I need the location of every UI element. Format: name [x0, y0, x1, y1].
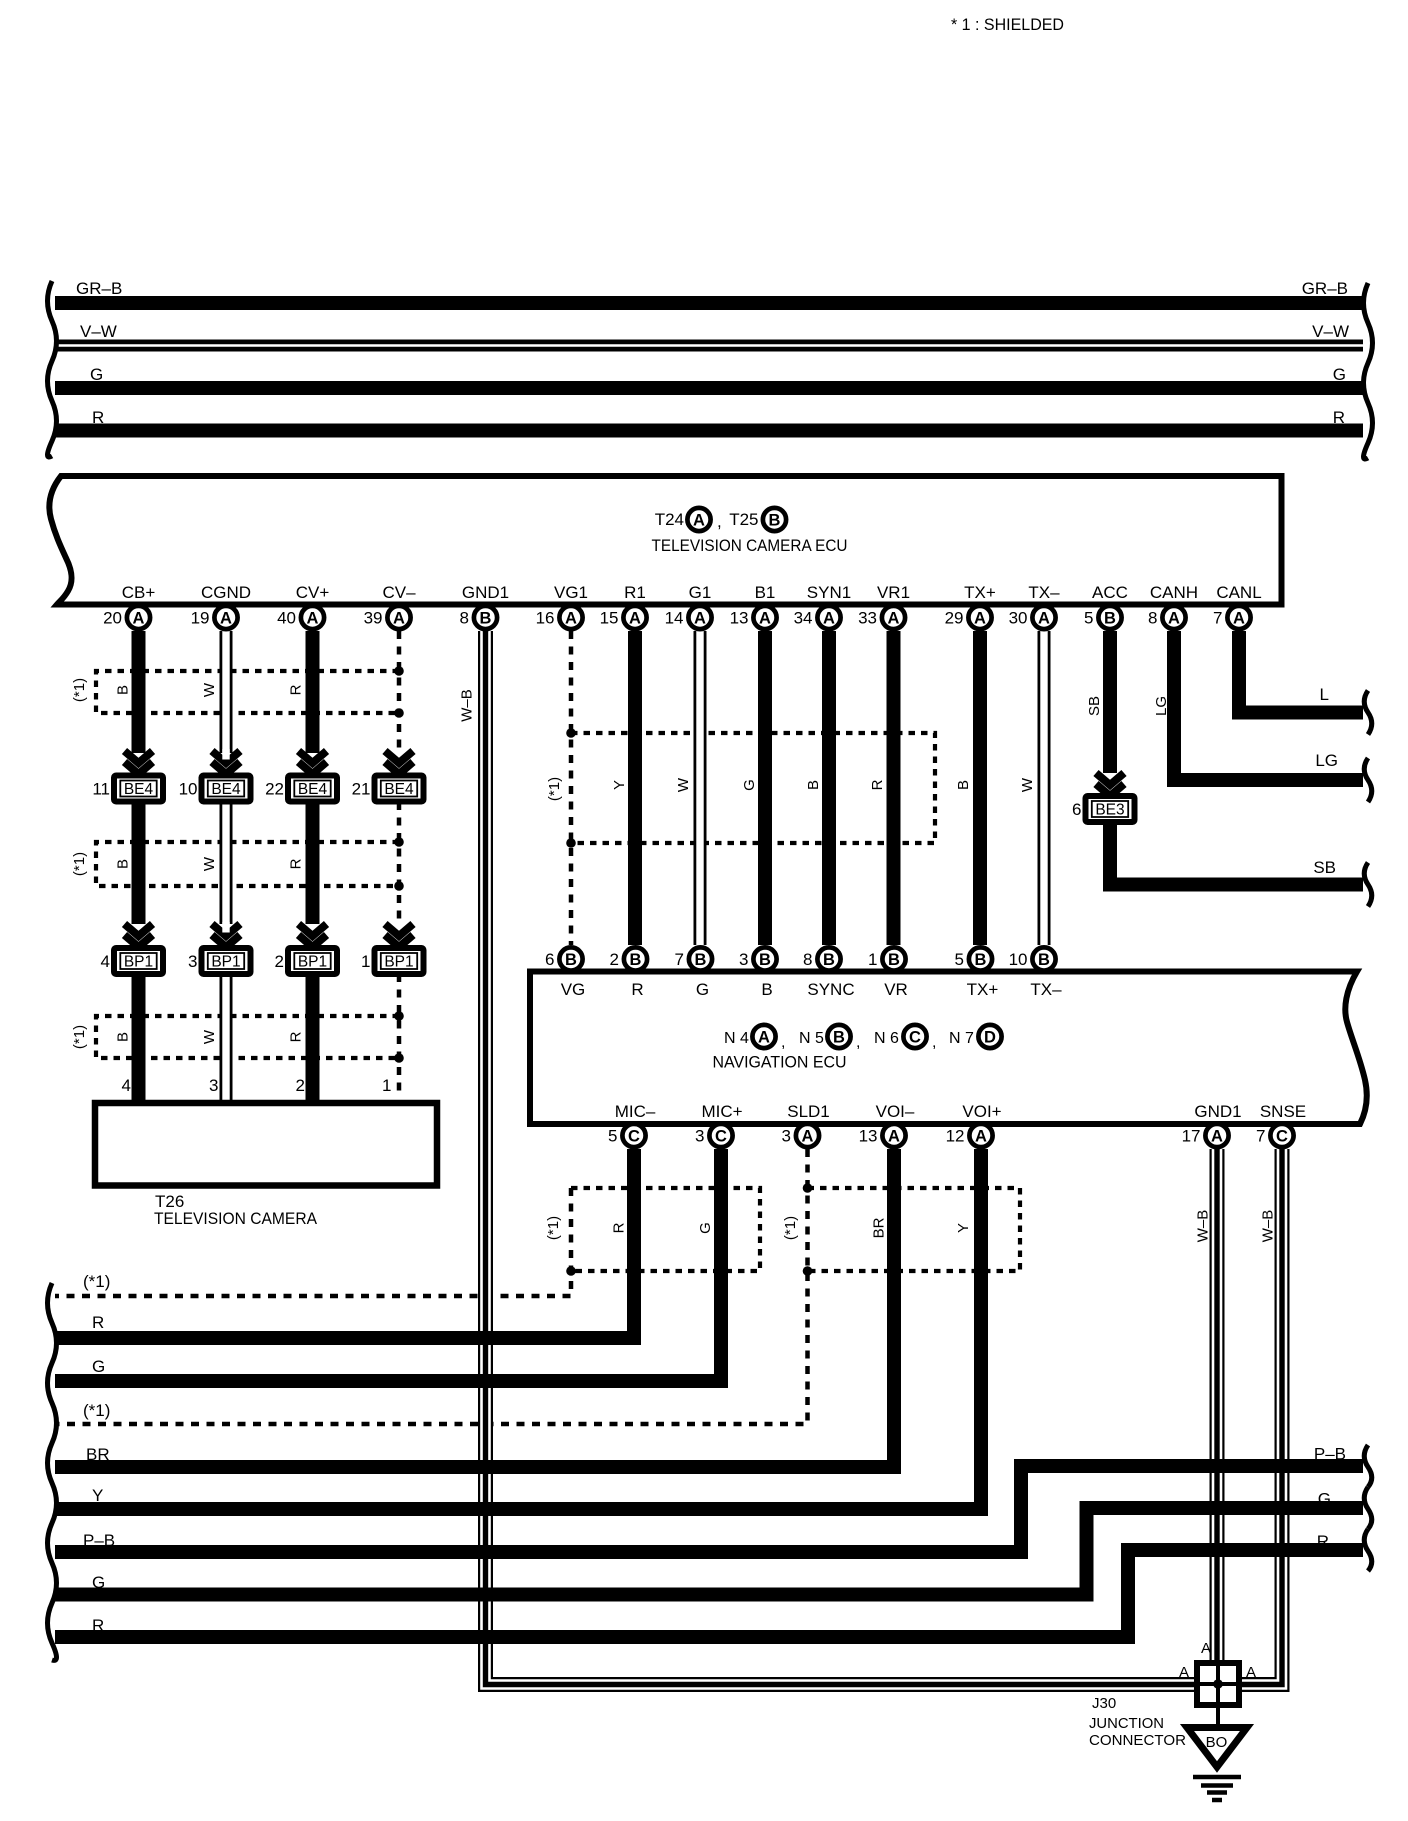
svg-text:LG: LG	[1315, 751, 1338, 770]
svg-text:MIC–: MIC–	[615, 1102, 656, 1121]
svg-text:VG1: VG1	[554, 583, 588, 602]
svg-text:4: 4	[122, 1076, 131, 1095]
svg-text:G1: G1	[689, 583, 712, 602]
svg-text:13: 13	[730, 609, 749, 628]
svg-text:8: 8	[1148, 609, 1157, 628]
svg-text:G: G	[92, 1573, 105, 1592]
svg-text:W: W	[201, 1029, 218, 1044]
svg-text:,: ,	[932, 1034, 936, 1051]
svg-text:CGND: CGND	[201, 583, 251, 602]
svg-text:LG: LG	[1153, 696, 1170, 716]
svg-text:B: B	[630, 951, 642, 969]
svg-text:,: ,	[717, 512, 722, 531]
svg-text:(*1): (*1)	[782, 1216, 799, 1240]
svg-text:R: R	[288, 1031, 305, 1042]
svg-text:W–B: W–B	[1260, 1210, 1277, 1243]
svg-text:A: A	[1038, 610, 1050, 628]
svg-text:A: A	[393, 610, 405, 628]
svg-text:T25: T25	[729, 510, 758, 529]
svg-text:BE4: BE4	[298, 781, 328, 798]
svg-text:SB: SB	[1086, 696, 1103, 716]
svg-text:C: C	[909, 1029, 921, 1047]
svg-text:CONNECTOR: CONNECTOR	[1089, 1732, 1186, 1749]
svg-text:D: D	[984, 1029, 996, 1047]
svg-text:3: 3	[209, 1076, 218, 1095]
svg-text:R: R	[1333, 408, 1345, 427]
svg-text:A: A	[220, 610, 232, 628]
svg-text:G: G	[696, 980, 709, 999]
svg-text:C: C	[1276, 1128, 1288, 1146]
svg-text:G: G	[1333, 365, 1346, 384]
svg-text:R1: R1	[624, 583, 646, 602]
svg-text:BP1: BP1	[124, 954, 153, 971]
svg-text:TX+: TX+	[964, 583, 996, 602]
svg-text:CV–: CV–	[382, 583, 416, 602]
svg-text:B: B	[769, 512, 781, 530]
svg-text:SB: SB	[1313, 858, 1336, 877]
svg-text:T24: T24	[655, 510, 684, 529]
svg-text:CANH: CANH	[1150, 583, 1198, 602]
svg-text:BO: BO	[1206, 1734, 1228, 1751]
svg-text:13: 13	[859, 1127, 878, 1146]
svg-text:W–B: W–B	[1195, 1210, 1212, 1243]
svg-text:L: L	[1320, 685, 1329, 704]
svg-text:10: 10	[1009, 950, 1028, 969]
svg-text:20: 20	[103, 609, 122, 628]
svg-text:12: 12	[946, 1127, 965, 1146]
svg-text:B: B	[805, 780, 822, 790]
svg-text:6: 6	[1072, 800, 1081, 819]
svg-text:1: 1	[382, 1076, 391, 1095]
svg-text:33: 33	[858, 609, 877, 628]
svg-text:7: 7	[675, 950, 684, 969]
svg-text:29: 29	[945, 609, 964, 628]
svg-text:B1: B1	[755, 583, 776, 602]
svg-text:A: A	[1246, 1664, 1256, 1681]
svg-text:N 5: N 5	[799, 1030, 824, 1047]
svg-text:CB+: CB+	[122, 583, 156, 602]
svg-text:R: R	[288, 684, 305, 695]
svg-text:TX–: TX–	[1030, 980, 1062, 999]
svg-text:TX+: TX+	[967, 980, 999, 999]
svg-text:C: C	[628, 1128, 640, 1146]
svg-text:TELEVISION CAMERA ECU: TELEVISION CAMERA ECU	[652, 536, 848, 555]
svg-text:P–B: P–B	[1314, 1445, 1346, 1464]
svg-text:VOI–: VOI–	[876, 1102, 915, 1121]
svg-text:A: A	[307, 610, 319, 628]
svg-text:B: B	[1038, 951, 1050, 969]
svg-text:B: B	[480, 610, 492, 628]
svg-text:CANL: CANL	[1216, 583, 1261, 602]
svg-text:SNSE: SNSE	[1260, 1102, 1306, 1121]
svg-text:,: ,	[856, 1034, 860, 1051]
svg-text:(*1): (*1)	[545, 1216, 562, 1240]
svg-text:Y: Y	[611, 780, 628, 790]
svg-text:(*1): (*1)	[71, 1025, 88, 1049]
svg-text:W: W	[201, 856, 218, 871]
svg-text:BE4: BE4	[211, 781, 241, 798]
svg-text:(*1): (*1)	[71, 852, 88, 876]
svg-text:22: 22	[265, 780, 284, 799]
svg-text:30: 30	[1009, 609, 1028, 628]
svg-text:R: R	[92, 408, 104, 427]
svg-text:39: 39	[364, 609, 383, 628]
svg-text:VG: VG	[561, 980, 586, 999]
svg-text:BP1: BP1	[384, 954, 413, 971]
svg-text:21: 21	[352, 780, 371, 799]
svg-text:B: B	[761, 980, 772, 999]
svg-text:GR–B: GR–B	[76, 279, 122, 298]
svg-text:A: A	[823, 610, 835, 628]
svg-text:CV+: CV+	[296, 583, 330, 602]
svg-text:C: C	[715, 1128, 727, 1146]
svg-text:Y: Y	[955, 1223, 972, 1233]
svg-text:G: G	[741, 779, 758, 791]
svg-text:3: 3	[188, 952, 197, 971]
svg-text:A: A	[758, 1029, 770, 1047]
svg-text:G: G	[92, 1357, 105, 1376]
svg-text:A: A	[694, 610, 706, 628]
svg-text:(*1): (*1)	[83, 1272, 110, 1291]
svg-text:BP1: BP1	[298, 954, 327, 971]
svg-text:TX–: TX–	[1028, 583, 1060, 602]
svg-text:Y: Y	[92, 1486, 103, 1505]
svg-text:A: A	[759, 610, 771, 628]
svg-text:(*1): (*1)	[546, 777, 563, 801]
svg-text:2: 2	[275, 952, 284, 971]
svg-text:VR: VR	[884, 980, 908, 999]
svg-text:N 4: N 4	[724, 1030, 749, 1047]
svg-text:34: 34	[794, 609, 813, 628]
svg-text:G: G	[697, 1222, 714, 1234]
svg-text:40: 40	[277, 609, 296, 628]
svg-text:BP1: BP1	[211, 954, 240, 971]
svg-text:19: 19	[191, 609, 210, 628]
svg-text:BE4: BE4	[384, 781, 414, 798]
svg-text:10: 10	[179, 780, 198, 799]
svg-text:16: 16	[536, 609, 555, 628]
svg-text:5: 5	[955, 950, 964, 969]
svg-text:B: B	[115, 859, 132, 869]
svg-text:A: A	[888, 610, 900, 628]
svg-text:B: B	[565, 951, 577, 969]
svg-text:A: A	[888, 1128, 900, 1146]
svg-text:W: W	[1019, 777, 1036, 792]
svg-text:A: A	[802, 1128, 814, 1146]
svg-text:B: B	[888, 951, 900, 969]
svg-text:R: R	[288, 858, 305, 869]
svg-text:R: R	[92, 1616, 104, 1635]
svg-text:14: 14	[665, 609, 684, 628]
svg-text:SYN1: SYN1	[807, 583, 851, 602]
svg-text:VOI+: VOI+	[962, 1102, 1001, 1121]
svg-text:1: 1	[361, 952, 370, 971]
svg-text:R: R	[611, 1222, 628, 1233]
svg-text:B: B	[1104, 610, 1116, 628]
svg-text:VR1: VR1	[877, 583, 910, 602]
svg-text:2: 2	[610, 950, 619, 969]
svg-text:SLD1: SLD1	[787, 1102, 830, 1121]
svg-text:GND1: GND1	[462, 583, 509, 602]
svg-text:A: A	[565, 610, 577, 628]
svg-text:P–B: P–B	[83, 1531, 115, 1550]
svg-text:N 7: N 7	[949, 1030, 974, 1047]
svg-text:N 6: N 6	[874, 1030, 899, 1047]
svg-text:BE4: BE4	[124, 781, 154, 798]
svg-text:15: 15	[600, 609, 619, 628]
svg-text:B: B	[115, 1032, 132, 1042]
svg-text:A: A	[693, 512, 705, 530]
svg-text:GR–B: GR–B	[1302, 279, 1348, 298]
svg-text:A: A	[1201, 1640, 1211, 1657]
svg-text:1: 1	[868, 950, 877, 969]
svg-text:11: 11	[92, 780, 110, 799]
svg-text:G: G	[1318, 1490, 1331, 1509]
svg-text:* 1 : SHIELDED: * 1 : SHIELDED	[951, 15, 1064, 34]
svg-text:BR: BR	[871, 1217, 888, 1238]
svg-text:A: A	[974, 610, 986, 628]
svg-text:5: 5	[608, 1127, 617, 1146]
svg-text:R: R	[631, 980, 643, 999]
svg-text:ACC: ACC	[1092, 583, 1128, 602]
svg-text:B: B	[695, 951, 707, 969]
svg-text:BE3: BE3	[1095, 802, 1124, 819]
svg-text:7: 7	[1256, 1127, 1265, 1146]
svg-text:B: B	[955, 780, 972, 790]
svg-text:V–W: V–W	[1312, 322, 1349, 341]
svg-text:W–B: W–B	[459, 689, 476, 722]
svg-text:R: R	[92, 1313, 104, 1332]
svg-text:R: R	[869, 779, 886, 790]
svg-text:BR: BR	[86, 1445, 110, 1464]
svg-text:3: 3	[739, 950, 748, 969]
svg-text:7: 7	[1213, 609, 1222, 628]
svg-text:R: R	[1317, 1532, 1329, 1551]
svg-text:,: ,	[781, 1034, 785, 1051]
svg-text:A: A	[975, 1128, 987, 1146]
svg-text:4: 4	[101, 952, 110, 971]
svg-text:A: A	[1211, 1128, 1223, 1146]
svg-text:3: 3	[695, 1127, 704, 1146]
svg-text:B: B	[823, 951, 835, 969]
svg-text:G: G	[90, 365, 103, 384]
svg-text:A: A	[1168, 610, 1180, 628]
svg-text:3: 3	[782, 1127, 791, 1146]
svg-text:NAVIGATION ECU: NAVIGATION ECU	[713, 1053, 847, 1072]
svg-text:8: 8	[803, 950, 812, 969]
svg-text:TELEVISION CAMERA: TELEVISION CAMERA	[154, 1209, 318, 1228]
svg-text:8: 8	[460, 609, 469, 628]
svg-text:2: 2	[296, 1076, 305, 1095]
svg-text:(*1): (*1)	[71, 678, 88, 702]
svg-text:MIC+: MIC+	[701, 1102, 742, 1121]
svg-text:SYNC: SYNC	[807, 980, 854, 999]
svg-text:J30: J30	[1092, 1695, 1116, 1712]
svg-text:A: A	[1233, 610, 1245, 628]
svg-text:(*1): (*1)	[83, 1401, 110, 1420]
svg-text:A: A	[629, 610, 641, 628]
svg-text:17: 17	[1182, 1127, 1201, 1146]
svg-text:B: B	[975, 951, 987, 969]
svg-text:JUNCTION: JUNCTION	[1089, 1715, 1164, 1732]
svg-text:W: W	[201, 682, 218, 697]
svg-text:5: 5	[1084, 609, 1093, 628]
svg-text:GND1: GND1	[1194, 1102, 1241, 1121]
svg-text:B: B	[833, 1029, 845, 1047]
svg-text:6: 6	[545, 950, 554, 969]
svg-text:B: B	[115, 685, 132, 695]
svg-text:A: A	[133, 610, 145, 628]
svg-text:W: W	[675, 777, 692, 792]
svg-text:V–W: V–W	[80, 322, 117, 341]
svg-text:A: A	[1179, 1664, 1189, 1681]
svg-text:B: B	[759, 951, 771, 969]
